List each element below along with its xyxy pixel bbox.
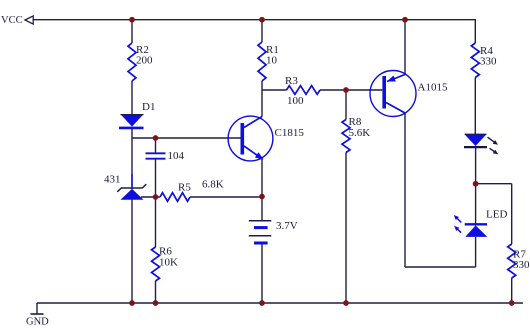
svg-text:R5: R5 [178,182,191,194]
svg-text:100: 100 [287,95,304,107]
svg-text:6.8K: 6.8K [202,179,224,191]
svg-text:A1015: A1015 [418,81,448,93]
svg-text:5.6K: 5.6K [349,127,371,139]
svg-text:R3: R3 [285,75,298,87]
svg-text:GND: GND [26,317,49,328]
svg-text:3.7V: 3.7V [276,220,298,232]
svg-text:330: 330 [513,259,530,271]
svg-text:330: 330 [480,56,497,68]
svg-text:D1: D1 [142,101,155,113]
svg-text:431: 431 [104,174,121,186]
svg-text:C1815: C1815 [275,127,305,139]
svg-text:200: 200 [136,55,153,67]
svg-text:LED: LED [486,209,507,221]
svg-text:VCC: VCC [1,15,23,26]
svg-text:104: 104 [168,150,185,162]
svg-text:10: 10 [266,55,278,67]
svg-text:10K: 10K [159,257,178,269]
